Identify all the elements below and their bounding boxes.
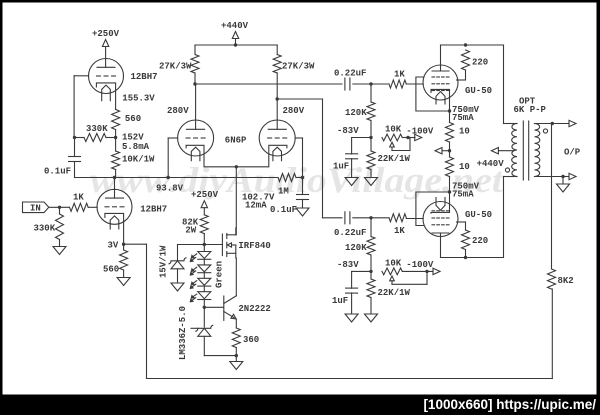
V3 plate lead	[440, 45, 442, 71]
svg-text:0.1uF: 0.1uF	[270, 205, 297, 215]
resistor 27K/3W left	[159, 45, 199, 84]
label 5.8mA	[122, 142, 150, 152]
supply +440V arrow top	[221, 21, 249, 45]
resistor 1M	[278, 174, 296, 197]
svg-text:2N2222: 2N2222	[238, 304, 270, 314]
V2b grid wire	[295, 138, 302, 178]
svg-text:155.3V: 155.3V	[122, 94, 155, 104]
node V4 cathode	[448, 190, 451, 193]
V1b heater	[110, 216, 119, 229]
bias supply -100V lower	[406, 260, 440, 275]
label 6K P-P	[514, 105, 547, 115]
triode V1a 12BH7	[89, 59, 124, 94]
V2a heater	[191, 147, 200, 161]
svg-text:+440V: +440V	[221, 21, 249, 31]
V3 heater	[436, 92, 445, 105]
node lower bias junction	[369, 216, 372, 219]
svg-text:27K/3W: 27K/3W	[159, 62, 192, 72]
node plate 220 lower	[464, 256, 467, 259]
V4 cathode bracket	[431, 192, 450, 213]
mosfet IRF840 Q1	[222, 228, 270, 258]
node V2b plate drive	[276, 97, 279, 100]
V2b plate lead	[276, 99, 278, 129]
resistor 10K/1W	[112, 151, 155, 170]
svg-text:5.8mA: 5.8mA	[122, 142, 150, 152]
resistor 360 emitter	[232, 328, 259, 356]
svg-text:[1000x660] https://upic.me/: [1000x660] https://upic.me/	[423, 397, 596, 412]
label 75mA lower	[452, 190, 474, 200]
V4 heater	[436, 198, 445, 211]
V2b cathode bracket	[236, 145, 287, 167]
svg-text:O/P: O/P	[564, 148, 581, 158]
svg-text:360: 360	[243, 335, 259, 345]
label 750mV upper	[452, 105, 480, 115]
OPT primary phase dot	[505, 168, 509, 172]
capacitor 0.1uF bootstrap	[44, 138, 81, 178]
svg-text:280V: 280V	[283, 106, 305, 116]
V4 plate lead	[440, 233, 442, 258]
V2a plate lead	[195, 84, 197, 129]
triode V2a 6N6P left	[178, 120, 214, 156]
ground below 560	[117, 278, 130, 286]
footer bar with hosting caption	[0, 395, 600, 416]
svg-text:10K: 10K	[385, 259, 402, 269]
svg-text:0.22uF: 0.22uF	[334, 69, 366, 79]
input connector IN	[23, 202, 49, 213]
V4 beam plate bracket	[416, 192, 450, 226]
node V2b grid leak	[301, 176, 304, 179]
pentode V4 GU-50 lower	[423, 202, 458, 237]
svg-text:+250V: +250V	[92, 29, 120, 39]
svg-text:-83V: -83V	[337, 126, 359, 136]
svg-text:IRF840: IRF840	[238, 241, 270, 251]
node V1b cathode 3V	[122, 243, 125, 246]
node V1a grid bias	[73, 136, 76, 139]
led D3 green	[190, 273, 211, 289]
resistor 220 lower screen	[462, 222, 489, 258]
ground below 22K upper	[365, 178, 378, 186]
wire 1K to GU50 grid	[406, 83, 423, 85]
OPT core	[523, 121, 528, 180]
label 12BH7 V1b	[140, 204, 167, 214]
label GU-50 upper	[465, 86, 492, 96]
svg-text:+440V: +440V	[477, 159, 505, 169]
wire 560 to 152V node	[115, 130, 117, 138]
svg-text:1K: 1K	[73, 193, 84, 203]
svg-text:152V: 152V	[122, 133, 144, 143]
resistor 560 V1a cathode	[112, 109, 142, 129]
resistor 120K upper	[345, 84, 375, 138]
triode V1b 12BH7 input stage	[97, 189, 132, 224]
supply +250V arrow CCS	[191, 190, 219, 215]
svg-text:3V: 3V	[108, 241, 119, 251]
resistor 560 V1b cathode	[103, 244, 128, 277]
node base	[203, 306, 206, 309]
svg-text:330K: 330K	[34, 224, 56, 234]
V4 screen wire	[457, 221, 466, 223]
wire 440V plate line upper	[441, 45, 504, 124]
svg-text:12BH7: 12BH7	[140, 204, 167, 214]
resistor 22K/1W upper	[367, 138, 411, 178]
bias supply -100V upper	[406, 127, 434, 141]
led D1 green	[190, 245, 211, 262]
ground below zener	[171, 283, 184, 291]
label Green	[215, 261, 225, 288]
wire 440V plate line lower	[441, 178, 504, 258]
svg-text:10: 10	[459, 162, 470, 172]
resistor 1K lower grid stopper	[389, 214, 406, 236]
OPT center tap +440V	[477, 148, 514, 170]
wire 440V top rail	[195, 44, 277, 46]
svg-text:15V/1W: 15V/1W	[159, 245, 169, 278]
resistor 330K input grid leak	[34, 207, 64, 246]
capacitor 0.22uF lower	[334, 212, 366, 238]
label 6N6P	[225, 136, 247, 146]
ground below 0.1uF	[296, 208, 309, 216]
svg-text:560: 560	[103, 264, 119, 274]
wire cathodes to CCS	[235, 167, 237, 235]
label 102.7V	[242, 193, 275, 203]
wire 93.8V rail	[75, 177, 279, 179]
ground below 360	[230, 356, 243, 370]
wire emitter ground bus	[204, 355, 236, 357]
label 93.8V	[156, 184, 184, 194]
svg-text:12BH7: 12BH7	[131, 72, 158, 82]
OPT secondary phase dot	[543, 129, 547, 133]
node rail to V2a grid	[167, 176, 170, 179]
svg-text:330K: 330K	[86, 124, 108, 134]
resistor 22K/1W lower	[367, 271, 411, 314]
node upper bias junction	[369, 82, 372, 85]
label 280V left	[167, 106, 189, 116]
V1b cathode bracket	[105, 213, 124, 244]
svg-text:GU-50: GU-50	[465, 210, 492, 220]
svg-text:1M: 1M	[278, 186, 289, 196]
wire 10K to rail	[115, 138, 117, 178]
svg-text:6K P-P: 6K P-P	[514, 105, 547, 115]
wire node to gate	[204, 244, 222, 246]
zener 15V/1W	[159, 245, 187, 283]
node rail V1b plate	[113, 176, 116, 179]
node plate 220 upper	[464, 43, 467, 46]
wire 330K to grid node	[74, 137, 116, 139]
node input junction	[58, 206, 61, 209]
label 12BH7 V1a	[131, 72, 158, 82]
pot 10K upper	[382, 125, 415, 151]
wire upper drive line	[195, 83, 389, 85]
led D4 green	[190, 286, 211, 302]
svg-text:120K: 120K	[345, 243, 367, 253]
label GU-50 lower	[465, 210, 492, 220]
capacitor 1uF upper	[333, 138, 371, 178]
wire led to base node	[203, 300, 205, 307]
svg-text:22K/1W: 22K/1W	[378, 288, 411, 298]
OPT secondary winding	[535, 124, 564, 177]
wire 1K to GU50b grid	[406, 218, 423, 220]
V3 screen wire	[457, 79, 466, 81]
svg-text:IN: IN	[30, 203, 41, 213]
svg-text:1K: 1K	[394, 226, 405, 236]
resistor 10 lower	[446, 151, 470, 192]
svg-text:2W: 2W	[185, 226, 196, 236]
triode V2b 6N6P right	[259, 120, 295, 156]
capacitor 0.22uF upper	[334, 69, 366, 91]
svg-text:12mA: 12mA	[245, 201, 267, 211]
label 280V right	[283, 106, 305, 116]
wire input to node	[49, 206, 70, 208]
node emitter ground	[235, 354, 238, 357]
V3 beam plate bracket	[416, 77, 450, 111]
V2b heater	[273, 147, 282, 161]
V1a cathode bracket	[96, 83, 115, 110]
resistor 120K lower	[345, 218, 375, 272]
label -83V lower	[337, 260, 359, 270]
output arrow top	[552, 120, 576, 126]
OPT primary winding	[504, 124, 518, 177]
svg-text:22K/1W: 22K/1W	[378, 154, 411, 164]
resistor 8K2 feedback	[548, 269, 574, 289]
svg-text:220: 220	[472, 236, 488, 246]
svg-text:280V: 280V	[167, 106, 189, 116]
resistor 10 upper	[446, 111, 470, 151]
svg-text:93.8V: 93.8V	[156, 184, 184, 194]
V1a heater	[102, 85, 111, 101]
ground below input 330K	[53, 247, 66, 255]
wire 1M to grid node	[296, 177, 303, 179]
V3 cathode bracket	[431, 89, 450, 111]
wire feedback from 3V node	[124, 244, 553, 378]
reference LM336Z-5.0	[178, 306, 213, 360]
svg-text:+250V: +250V	[191, 190, 219, 200]
resistor 82K 2W	[182, 215, 208, 245]
resistor 1K upper grid stopper	[389, 70, 406, 89]
svg-text:120K: 120K	[345, 108, 367, 118]
node gate bias	[203, 243, 206, 246]
label -83V upper	[337, 126, 359, 136]
ground below 22K lower	[365, 314, 378, 322]
node V2a plate drive	[193, 82, 196, 85]
capacitor 0.1uF V2b grid	[270, 178, 309, 216]
svg-text:Green: Green	[215, 261, 225, 288]
svg-text:27K/3W: 27K/3W	[282, 62, 315, 72]
svg-text:GU-50: GU-50	[465, 86, 492, 96]
svg-text:1uF: 1uF	[333, 162, 349, 172]
wire 1K to grid	[88, 206, 97, 208]
node V3 cathode	[448, 109, 451, 112]
pot 10K lower	[382, 259, 433, 285]
resistor 1K grid stopper V1b	[70, 193, 89, 212]
svg-text:75mA: 75mA	[452, 190, 474, 200]
pentode V3 GU-50 upper	[423, 65, 458, 100]
label 155.3V	[122, 94, 155, 104]
svg-text:0.22uF: 0.22uF	[334, 228, 366, 238]
svg-text:560: 560	[125, 114, 141, 124]
test arrow chain mid	[435, 148, 450, 154]
svg-text:6N6P: 6N6P	[225, 136, 247, 146]
node secondary top	[551, 122, 554, 125]
capacitor 1uF lower	[332, 271, 371, 314]
led D2 green	[190, 260, 211, 276]
V1b plate lead to 93.8V rail	[114, 178, 116, 199]
label 75mA upper	[452, 113, 474, 123]
resistor 220 upper screen	[462, 50, 489, 80]
label 750mV lower	[452, 182, 480, 192]
svg-text:-100V: -100V	[406, 127, 434, 137]
wire lower drive from V2b	[277, 99, 389, 218]
svg-text:75mA: 75mA	[452, 113, 474, 123]
svg-text:-83V: -83V	[337, 260, 359, 270]
wire 8K2 to OPT secondary	[551, 124, 553, 270]
V1a grid wire left	[74, 76, 89, 138]
wire rail to V2a grid	[168, 138, 177, 178]
svg-text:10: 10	[459, 127, 470, 137]
ground below 1uF upper	[345, 178, 358, 186]
transistor 2N2222 Q2	[224, 258, 271, 328]
ground below 1uF lower	[345, 314, 358, 322]
svg-text:10K/1W: 10K/1W	[122, 154, 155, 164]
node 152V	[114, 136, 117, 139]
node chain mid	[448, 149, 451, 152]
svg-text:1uF: 1uF	[332, 296, 348, 306]
label 12mA	[245, 201, 267, 211]
svg-text:-100V: -100V	[406, 260, 434, 270]
ground secondary	[557, 177, 570, 193]
V2a cathode bracket	[186, 145, 236, 167]
svg-text:10K: 10K	[385, 125, 402, 135]
svg-text:0.1uF: 0.1uF	[44, 166, 71, 176]
label O/P	[564, 148, 581, 158]
resistor 27K/3W right	[273, 45, 315, 99]
label 3V cathode	[108, 241, 119, 251]
node pot upper output	[406, 136, 409, 139]
resistor 330K bootstrap	[84, 124, 108, 142]
supply +250V arrow V1a plate	[92, 29, 120, 67]
node pot lower output	[425, 270, 428, 273]
svg-text:1K: 1K	[394, 70, 405, 80]
image black border	[0, 0, 600, 3]
wire base	[204, 306, 223, 308]
svg-text:220: 220	[472, 58, 488, 68]
node secondary bottom	[561, 175, 564, 178]
node 440V top	[234, 43, 237, 46]
node 6N6P cathodes	[235, 165, 238, 168]
svg-text:8K2: 8K2	[558, 276, 574, 286]
label 152V	[122, 133, 144, 143]
output arrow bottom	[563, 173, 576, 179]
svg-text:LM336Z-5.0: LM336Z-5.0	[178, 306, 188, 360]
node -83V upper	[369, 136, 372, 139]
node -83V lower	[369, 270, 372, 273]
label OPT	[519, 97, 536, 107]
wire node to zener	[178, 245, 205, 261]
